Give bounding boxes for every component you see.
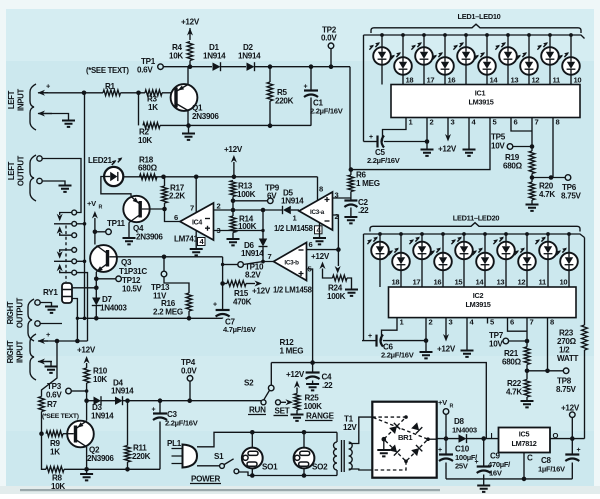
wire IC3b pin5 down [307,269,313,363]
junction D6 top [261,208,266,213]
svg-text:6V: 6V [267,191,277,200]
ground right output [45,307,58,313]
junction TP10 column [221,263,224,266]
junction TP3-R10-emitter [85,389,89,393]
junction c2 riser on relay net [83,317,87,321]
junction inv input node [336,247,341,252]
wire left input to R1 [41,92,103,94]
pin label 10 IC2 [560,278,568,287]
wire Q1 collector to rail [187,111,189,126]
test point TP2 [321,26,337,65]
junction R5 bottom [268,123,273,128]
wire IC1 pin3 +12V [445,124,451,142]
capacitor C6 [362,333,415,360]
junction R16 bottom [187,316,192,321]
pin 8 stub IC1 [553,118,560,127]
svg-text:2.2 MEG: 2.2 MEG [153,308,183,317]
LED LED12 [388,248,410,271]
resistor R1 [103,82,121,96]
pin 5 stub IC1 [490,118,498,127]
svg-text:SO2: SO2 [312,463,328,472]
svg-text:IC1: IC1 [475,89,486,98]
svg-text:10K: 10K [51,482,65,491]
wire SO1 leads [251,432,253,475]
svg-text:10K: 10K [169,52,183,61]
wire IC4 pin4 to ground [195,231,197,249]
svg-text:1/2 LM1458: 1/2 LM1458 [274,224,314,233]
svg-text:6: 6 [174,213,178,222]
svg-text:18: 18 [392,278,400,287]
capacitor C4 [306,363,334,390]
wire right input tip [41,340,88,342]
svg-text:2.2µF/16V: 2.2µF/16V [310,107,344,116]
LED LED3 [411,42,433,65]
ground IC1 pin2 [421,150,434,156]
wire bus2 drop to C6 [363,234,365,341]
svg-text:+: + [368,333,372,340]
wire LED13 leads [421,234,423,287]
resistor R4 [169,42,193,67]
svg-text:LM741: LM741 [174,235,198,244]
junction pin8 node [549,175,554,180]
wire LED8 leads [528,35,530,85]
svg-text:7: 7 [268,252,272,261]
relay contact set 2 [54,248,77,276]
junction SO2 bottom [302,473,307,478]
svg-text:8: 8 [319,185,323,194]
diode D4 [111,379,134,406]
junction LED14 anode [441,232,445,236]
svg-text:8.75V: 8.75V [556,385,577,394]
svg-text:3: 3 [451,118,455,127]
label SET [274,407,290,416]
op-amp IC2 box LM3915 [389,287,577,318]
svg-text:2: 2 [429,318,433,327]
LED LED6 [474,52,496,75]
svg-text:+: + [577,447,581,454]
svg-text:+12V: +12V [561,404,580,413]
svg-text:2N3906: 2N3906 [192,112,219,121]
test point +12V out [561,404,580,439]
svg-text:Q3: Q3 [121,258,132,267]
junction IC2 pin2 gnd [424,338,429,343]
junction LED20 anode [567,232,571,236]
ground PSU [477,479,490,492]
svg-text:16: 16 [434,278,442,287]
svg-text:+: + [475,459,479,466]
svg-text:2.2µF/16V: 2.2µF/16V [367,156,401,165]
svg-text:100K: 100K [237,190,256,199]
svg-text:I: I [491,431,493,440]
bridge rectifier BR1 box [372,402,436,478]
svg-text:12V: 12V [343,423,357,432]
test point TP4 [181,358,197,401]
capacitor C9 [475,439,512,479]
test point +VR [438,398,454,439]
junction BR1 top corner [404,415,408,419]
svg-text:1N4003: 1N4003 [100,304,127,313]
resistor R3 [145,90,162,112]
svg-text:7: 7 [530,318,534,327]
capacitor C8 [538,439,581,479]
svg-text:25V: 25V [455,462,469,471]
pin label 11 IC1 [553,76,562,85]
junction C10 top [444,436,449,441]
junction R13-R14 W-mid [231,208,236,213]
junction relay net corner [76,317,79,320]
wire IC2 pin7 down [526,324,528,347]
svg-text:S2: S2 [244,379,254,388]
test point TP12 [96,276,142,294]
svg-text:IC2: IC2 [473,291,484,300]
resistor R14 [230,215,257,239]
svg-text:1 MEG: 1 MEG [280,347,304,356]
junction TP11 tap [93,230,98,235]
wire Q3 emitter down [95,272,97,288]
junction LED9 anode [548,33,552,37]
junction C9 top [481,436,486,441]
wire LED19 leads [547,234,549,287]
label RIGHT INPUT [6,340,25,363]
junction LED6 anode [485,33,489,37]
wire LED2 leads [402,35,404,85]
diode D6 [241,210,268,264]
svg-text:.22: .22 [358,206,369,215]
resistor R15 [223,281,262,307]
svg-text:1N914: 1N914 [91,412,114,421]
svg-text:C: C [527,454,533,463]
wire node to TP6 [532,177,566,179]
svg-text:SET: SET [275,407,290,416]
svg-text:13: 13 [511,76,519,85]
svg-text:2: 2 [430,118,434,127]
svg-text:(*SEE TEXT): (*SEE TEXT) [86,66,129,75]
junction LED5 anode [464,33,468,37]
junction TP2 tap [329,64,334,69]
pin 2 stub IC2 [426,318,433,327]
LED LED4 [432,52,454,75]
wire IC3a pin2 to R24 wiper [333,215,339,250]
wire LED9 leads [549,35,551,85]
wire relay coil to net corner [72,299,78,342]
label POWER [190,475,221,484]
wire IC1 pin4 down [468,124,470,149]
pin 6 stub IC2 [508,318,515,327]
wire LED18 leads [526,234,528,287]
transformer T1 secondary [349,417,373,470]
svg-text:1K: 1K [50,448,60,457]
junction relay drop [75,339,80,344]
junction pin3-D6 [261,229,264,232]
wire bottom rail R2-C1 [160,124,311,126]
wire IC2 pin4 down [466,324,468,351]
capacitor C2 [344,192,369,217]
pin 5 stub IC2 [488,318,496,327]
svg-text:PL1: PL1 [167,439,182,448]
wire D8 to IC5 [467,438,499,440]
junction LED1 anode [380,33,384,37]
pin label 13 IC1 [511,76,519,85]
svg-text:1N4003: 1N4003 [452,426,477,435]
switch S1 [214,452,239,474]
wire R21 to R22 [526,365,528,380]
junction D3 anode node [84,398,89,403]
ground left output [59,186,72,192]
junction TP4 tap [187,398,192,403]
svg-text:15: 15 [455,278,464,287]
wire Q2 collector to ground [86,447,88,470]
wire plug to switch S1 [197,465,219,467]
svg-text:+: + [369,134,373,141]
resistor R6 [348,170,380,192]
LED LED20 [556,248,578,271]
wire IC2 pin2 down [425,324,427,352]
test point TP5 [491,133,532,151]
svg-text:10V: 10V [489,340,503,349]
LED LED16 [472,248,494,271]
wire D2 to corner at C2 column [255,66,350,68]
svg-text:100K: 100K [327,292,346,301]
pin label 11 IC2 [539,278,548,287]
pin 1 stub IC1 [406,118,414,127]
junction C1 top [309,64,314,69]
transformer T1 core [342,440,345,472]
wire IC1 pin8 down [552,124,554,178]
resistor R22 [506,379,530,401]
resistor R8 [46,466,87,491]
svg-text:LM3915: LM3915 [466,300,491,309]
wire bus drop to C5 [363,35,365,142]
svg-text:1N914: 1N914 [111,387,134,396]
pin label 13 IC2 [497,278,505,287]
wire bottom rail Q2-R11-C3 [87,468,160,470]
svg-text:13: 13 [497,278,505,287]
wire LED21 anode wrap to Q4 emitter [101,177,131,197]
ground R25 [291,415,304,421]
pin 1 stub IC2 [397,318,405,327]
wire right input ring to ground [41,362,51,367]
bridge diode BR1-c [389,444,400,455]
wire IC3a pin3 to R6-C2 [333,197,351,199]
wire left output ring to ground [42,181,65,185]
relay linkage dashed [65,226,67,283]
svg-text:680Ω: 680Ω [138,164,158,173]
label +12V IC1 pin3 [438,145,457,154]
right output jack [28,299,40,341]
junction R19-R20 node [530,175,535,180]
wire +VR rail [92,211,98,245]
junction LED7 anode [506,33,510,37]
diode D1 [203,43,226,71]
svg-text:6: 6 [309,240,313,249]
svg-text:470K: 470K [233,298,252,307]
wire IC3a pin4 ground [319,223,321,238]
junction SO1 top [250,430,255,435]
left output jack [30,155,42,201]
junction TP7 pin7 [525,339,530,344]
pin 7 stub IC1 [532,118,539,127]
junction D7 bottom [94,316,99,321]
wire PSU bottom rail [446,478,572,480]
svg-text:+12V: +12V [438,145,457,154]
label RIGHT OUTPUT [6,297,25,328]
svg-text:RIGHT: RIGHT [6,340,15,363]
svg-text:R1: R1 [105,82,116,91]
svg-text:+12V: +12V [77,346,96,355]
junction Q1 ground [186,123,191,128]
junction relay coil node [94,286,99,291]
svg-text:0.6V: 0.6V [46,391,62,400]
label +12V (R24) [311,252,330,261]
svg-text:+12V: +12V [252,287,271,296]
wire left input ring to ground [41,114,69,121]
socket SO1 [242,448,278,472]
junction TP13 tap [162,254,167,259]
wire LED5 leads [465,35,467,85]
pin 7 stub IC2 [527,318,534,327]
wire D1 to D2 [221,66,246,68]
resistor R23 [557,238,587,439]
pin label 12 IC1 [532,76,540,85]
wire IC1 pin7 down [531,124,533,151]
ground C2 [344,217,357,223]
svg-text:10: 10 [574,76,582,85]
wire LED17 leads [505,234,507,287]
svg-text:WATT: WATT [557,354,578,363]
test point TP9 [233,184,280,204]
wire +12V arrow to R13 [231,155,237,177]
svg-text:1µF/16V: 1µF/16V [538,465,566,474]
svg-text:4.7µF/16V: 4.7µF/16V [223,325,257,334]
LED LED1 [369,42,391,65]
svg-text:680Ω: 680Ω [502,358,522,367]
LED LED7 [495,42,517,65]
right input jack [30,330,52,380]
op-amp IC3-a [274,185,339,235]
pin 3 stub IC1 [448,118,455,127]
junction LED15 anode [462,232,466,236]
label (*SEE TEXT) for R1 [86,66,129,75]
svg-text:IC5: IC5 [519,430,530,439]
svg-text:6: 6 [510,318,514,327]
pin label 16 IC2 [434,278,442,287]
wire relay net [77,317,222,319]
junction Q1 emitter node [188,64,193,69]
svg-text:OUTPUT: OUTPUT [17,155,26,186]
capacitor C10 [438,439,478,479]
ground Q4 [123,238,136,244]
wire IC3b pin6 to node [307,249,339,251]
LED LED13 [409,237,431,260]
junction SO1 bottom [250,473,255,478]
LED LED21 [88,156,123,186]
svg-text:R: R [99,205,103,211]
svg-text:INPUT: INPUT [17,89,26,111]
test point TP8 [556,368,577,394]
ground IC4 [190,249,203,255]
resistor R20 [529,182,555,205]
svg-text:INPUT: INPUT [16,341,25,363]
ground IC2 pin4 [461,351,474,357]
wire W-top LED21 to IC3a pin8 [123,176,318,178]
svg-text:3: 3 [449,318,453,327]
resistor R2 [138,123,160,146]
pin label 15 IC2 [455,278,464,287]
diode D5 [281,189,304,223]
junction c5 tap [77,260,87,264]
junction LED19 anode [546,232,550,236]
wire Q3 base to TP13 net [109,256,222,258]
junction pin8 node row2 [545,369,550,374]
transistor Q1 [171,84,220,121]
junction TP9 tap [231,199,236,204]
label +12V (R25) [286,370,305,379]
wire IC5 output [550,438,585,440]
label +12V (R15) [252,287,271,296]
LED LED15 [451,237,473,260]
wire Q4 collector to ground [128,223,130,238]
relay contact set 1 [54,210,77,238]
wire IC2 pin1 to C6 [382,324,398,341]
wire S2 R12 net [271,363,486,439]
svg-text:LED1–LED10: LED1–LED10 [457,12,500,21]
wire IC1 pin5 to signal [351,124,490,170]
wire D3-D4 net [87,400,261,402]
wire Q4 base to node [142,208,165,210]
svg-text:7: 7 [190,204,194,213]
svg-text:100K: 100K [304,402,323,411]
wire LED6 leads [486,35,488,85]
junction +12V output node [570,436,575,441]
svg-text:RY1: RY1 [43,288,58,297]
wire LED anode bus row1 [364,35,585,39]
wire LED20 leads [568,234,570,287]
wire LED anode bus row2 [364,234,585,238]
svg-text:680Ω: 680Ω [503,162,523,171]
bridge diode BR1-d [411,445,422,456]
pin label 10 IC1 [574,76,582,85]
svg-text:0.0V: 0.0V [181,367,197,376]
svg-text:TP5: TP5 [491,133,506,142]
pin 6 stub IC1 [511,118,518,127]
wire IC5 common pin [523,453,525,479]
wire LED3 leads [423,35,425,85]
resistor R10 [84,356,108,391]
capacitor C3 [152,401,199,470]
wire contact c6 to right input [77,273,88,341]
svg-text:14: 14 [476,278,485,287]
svg-text:2.2µF/16V: 2.2µF/16V [165,419,199,428]
junction TP12 tap [94,277,99,282]
junction TP5 on pin7 [530,144,535,149]
svg-text:T1P31C: T1P31C [119,267,147,276]
wire TP1 to D1 node [163,66,212,68]
resistor R16 [153,293,192,318]
label R12 1 MEG [280,338,304,356]
ground IC2 pin2 [420,352,433,358]
wire W-mid to D5 [233,209,283,211]
wire LED10 leads [570,35,572,85]
pin label 17 IC2 [413,278,421,287]
wire BR1 to D8 node [437,438,459,440]
junction BR1 left corner [382,437,387,442]
svg-text:12: 12 [518,278,526,287]
junction LED13 anode [420,232,424,236]
svg-text:12: 12 [532,76,540,85]
svg-text:LEFT: LEFT [7,90,16,109]
svg-text:+: + [152,407,156,414]
svg-text:2.2K: 2.2K [169,192,185,201]
